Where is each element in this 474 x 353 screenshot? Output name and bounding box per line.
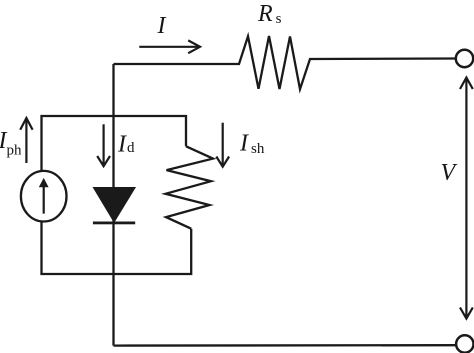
- svg-text:Rs: Rs: [257, 1, 282, 27]
- svg-text:V: V: [441, 160, 458, 186]
- svg-text:Iph: Iph: [0, 128, 22, 158]
- svg-text:I: I: [157, 13, 167, 39]
- svg-text:Id: Id: [117, 132, 135, 158]
- svg-text:Ish: Ish: [239, 130, 265, 157]
